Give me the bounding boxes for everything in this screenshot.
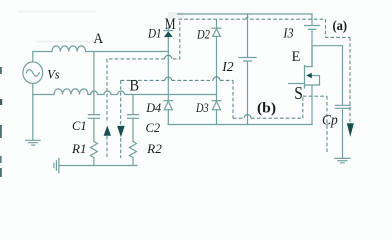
inductor L1 [52, 46, 86, 52]
loop (b) dashed box bottom [233, 96, 303, 118]
wire D2 anode down to D3 [216, 36, 218, 100]
svg-text:Cp: Cp [322, 112, 338, 128]
svg-text:M: M [165, 16, 176, 33]
hop over D1 column [165, 77, 172, 80]
resistor R2 [130, 118, 137, 165]
svg-text:I2: I2 [221, 60, 233, 75]
capacitor Cp [335, 105, 350, 158]
loop (a) dashed top rail [179, 18, 326, 20]
resistor R1 [90, 118, 97, 165]
svg-text:E: E [292, 49, 301, 65]
transistor Q1 body diode link [310, 76, 320, 86]
svg-text:Vs: Vs [47, 67, 59, 82]
diode D2 [213, 29, 221, 37]
svg-text:(b): (b) [257, 100, 276, 116]
svg-text:C1: C1 [72, 118, 87, 133]
wire Vs top to L1 [33, 52, 52, 62]
hop over I2 column lower [244, 115, 251, 118]
wire node E branch to Cp [312, 46, 343, 105]
svg-text:D3: D3 [195, 100, 209, 115]
ground at Cp [335, 158, 350, 162]
transistor Q1 drain lead node E [305, 46, 313, 67]
battery I3 [305, 14, 320, 67]
transistor Q1 gate lead [289, 83, 305, 85]
scan smudge above inductor [36, 41, 96, 43]
wire Vs bottom to L2 [33, 94, 54, 96]
scan mark left edge 5 [0, 168, 2, 177]
current arrow down on loop (b2) [117, 126, 125, 137]
ground at Vs [26, 140, 40, 145]
wire node B down to C2 [132, 95, 134, 114]
hop over I2 column [246, 17, 250, 19]
capacitor C1 [88, 115, 99, 119]
current arrow up on loop (b1) [104, 126, 111, 136]
svg-text:R2: R2 [146, 141, 162, 156]
diode D1 filled triangle [164, 31, 173, 37]
transistor Q1 body bar [304, 66, 306, 89]
wire Vs bottom down to ground [32, 84, 34, 141]
wire bottom DC rail [168, 124, 312, 126]
loop (a) dashed right path [326, 19, 351, 123]
svg-text:R1: R1 [71, 141, 87, 156]
loop (b1) dashed left drop [106, 59, 108, 158]
wire node A down to C1 [93, 52, 95, 114]
svg-text:D4: D4 [145, 100, 161, 115]
svg-text:(a): (a) [333, 19, 348, 34]
current arrow down on loop (a) [347, 123, 354, 137]
scan smudge top-left streak [18, 11, 96, 13]
scan mark left edge 2 [0, 99, 2, 105]
AC source Vs sine wave [26, 70, 39, 77]
svg-text:C2: C2 [146, 120, 161, 135]
scan mark left edge 1 [0, 67, 2, 74]
svg-text:A: A [94, 31, 104, 47]
wire D1 anode down through node B cross to D4 [167, 37, 169, 100]
svg-text:D2: D2 [196, 27, 210, 42]
inductor L2 [54, 89, 88, 95]
capacitor C2 [128, 115, 139, 119]
transistor Q1 arrow [306, 73, 312, 78]
wire D4 anode to DC rail [167, 110, 169, 125]
loop (b) dashed to node S and Cp [303, 96, 327, 153]
svg-text:D1: D1 [147, 26, 161, 41]
loop (b2) dashed node B run [121, 80, 233, 118]
wire L1 to node A to D1 column [86, 51, 168, 53]
svg-text:B: B [130, 78, 140, 95]
hop over D2 column [213, 77, 220, 81]
svg-text:S: S [294, 83, 303, 103]
battery I2 [239, 14, 256, 125]
wire D3 anode to DC rail [216, 110, 218, 125]
transistor Q1 source lead node S [305, 85, 320, 125]
loop (b2) dashed left drop [120, 80, 122, 158]
diode D4 [164, 100, 173, 102]
wire bottom rail R1 R2 [60, 165, 137, 167]
wire top DC rail M to I3 [178, 13, 313, 15]
scan mark left edge 4 [0, 156, 2, 163]
hop over D1 column upper [165, 55, 172, 59]
diode D2 cathode lead and bar [216, 19, 218, 28]
loop (b1) dashed from M down and left [172, 22, 180, 59]
diode D1 cathode stub and bar [167, 28, 169, 31]
svg-text:I3: I3 [283, 27, 294, 42]
scan mark left edge 3 [0, 125, 2, 138]
scan smudge above node M [168, 12, 184, 19]
diode D3 [212, 100, 221, 102]
wire node B run with three crossover hops [88, 91, 217, 94]
AC source Vs circle [23, 62, 43, 84]
ground at bottom rail (rotated) [54, 158, 59, 172]
